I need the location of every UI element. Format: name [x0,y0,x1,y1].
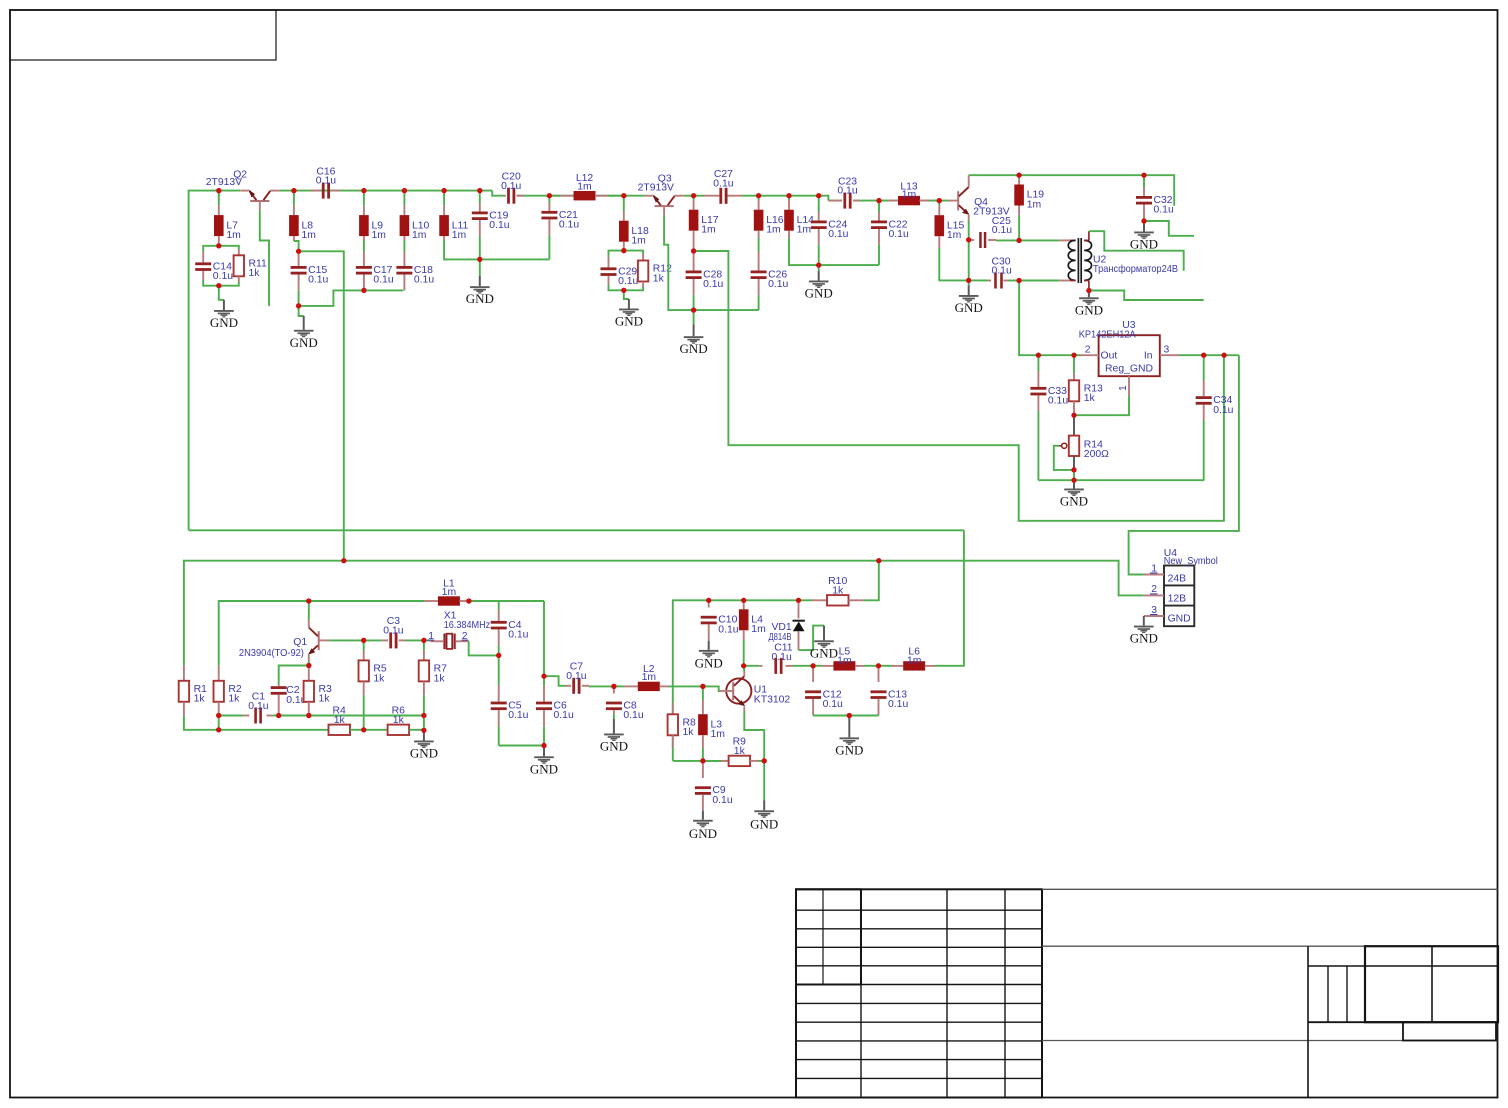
wire L11 pins [443,191,445,206]
wire Out node to C30 [1019,281,1080,356]
svg-text:0.1u: 0.1u [823,699,843,710]
transistor Q4 2T913V [948,175,1010,220]
svg-text:GND: GND [1075,302,1103,317]
inductor L10 [400,206,430,241]
pin U3 out [1080,354,1099,356]
node L3 top [700,684,705,689]
resistor R8 [668,703,696,747]
wire L17 top [693,196,695,200]
svg-text:0.1u: 0.1u [888,699,908,710]
wire Q1 collector [308,601,310,620]
inductor L13 [879,181,939,205]
node C22 top [876,198,881,203]
capacitor C15 [291,251,329,306]
capacitor C30 [969,257,1019,289]
svg-text:1m: 1m [1027,199,1041,210]
ground gnd4 [615,309,643,329]
node vert from top [341,558,346,563]
wire R14 bottom [1073,456,1075,470]
wire C28 feedback to regulator [694,251,1224,521]
node C14 bottom [216,283,221,288]
wire base line c [424,639,430,641]
resistor R2 [214,666,242,716]
svg-text:GND: GND [1060,494,1088,509]
wire L9 to C17 [363,240,365,252]
node C24 bottom [816,263,821,268]
node C19 bottom [477,257,482,262]
wire to gnd6 [818,265,820,280]
capacitor C6 [536,676,574,745]
node L19 top [1017,173,1022,178]
connector U4 box [1164,548,1218,626]
svg-text:GND: GND [835,742,863,757]
node VD1 top [796,598,801,603]
capacitor C12 [805,666,843,716]
svg-text:0.1u: 0.1u [373,275,393,286]
wire L8 to C15 [294,241,299,251]
wire Q1 base line [330,639,364,641]
junction dots overlay [216,173,1227,764]
wire C10-L4 line [709,599,744,601]
svg-text:0.1u: 0.1u [383,626,403,637]
op-amp U3 KP142EH12A box [1079,320,1170,391]
node C2 bottom [276,713,281,718]
node L9 top [361,188,366,193]
wire line B b [364,729,388,731]
capacitor C34 [1196,355,1234,480]
node C12 top [811,663,816,668]
wire rail segment A [280,190,493,192]
node L3 bottom [700,758,705,763]
wire to gnd5 [693,310,695,336]
node C15 bottom [296,303,301,308]
wire L16 top [758,196,760,200]
node L10 top [402,188,407,193]
svg-text:GND: GND [1130,631,1158,646]
wire R8 L3 R9 line [673,760,729,762]
svg-text:GND: GND [689,826,717,841]
svg-text:1m: 1m [642,672,656,683]
transistor Q1 2N3904 [239,620,330,662]
capacitor C18 [396,252,434,291]
svg-text:1k: 1k [249,268,261,279]
wire base line b [364,639,382,641]
wire U1 emitter route [744,711,764,761]
inductor L9 [359,206,386,241]
svg-text:0.1u: 0.1u [316,176,336,187]
node L1 right [466,598,471,603]
svg-text:3: 3 [1164,345,1170,356]
ground gnd12 [530,756,558,776]
svg-text:24B: 24B [1168,573,1187,584]
node L4 bottom [741,663,746,668]
node Q1 emitter [306,663,311,668]
wire L10 pins [403,191,405,206]
node C33 top [1036,353,1041,358]
svg-text:1m: 1m [766,225,780,236]
wire to U1 base [703,686,720,691]
resistor R6 [388,706,410,735]
svg-text:0.1u: 0.1u [837,186,857,197]
wire L4-R10 line [744,599,799,601]
capacitor C17 [356,252,394,291]
node C29 bottom [621,288,626,293]
svg-text:1m: 1m [797,225,811,236]
wire R13 to R14 [1073,415,1075,435]
capacitor C32 [1136,175,1174,221]
wire L14 top [788,196,790,200]
svg-text:0.1u: 0.1u [308,275,328,286]
node C17 bottom [361,288,366,293]
ground gnd6 [805,281,833,301]
capacitor C26 [751,252,789,311]
node R7 top [421,638,426,643]
svg-text:0.1u: 0.1u [1048,396,1068,407]
wire U1 collector [743,666,746,672]
node C32 bottom [1141,218,1146,223]
node C34 top [1201,353,1206,358]
inductor L16 [754,200,784,238]
wire to gnd4 [624,290,629,308]
wire rail jog at C23 [819,196,829,201]
svg-text:GND: GND [615,314,643,329]
svg-text:1m: 1m [226,230,240,241]
node R6 right [421,728,426,733]
pin U4 2 [1144,584,1164,595]
node R2 line B [216,727,221,732]
node C12 C13 gnd [847,713,852,718]
wire C4 top pin [498,610,500,621]
wire line B a [219,729,329,731]
wire L8 top [293,191,295,206]
svg-text:0.1u: 0.1u [712,795,732,806]
capacitor C7 [566,662,614,694]
capacitor C27 [704,169,743,204]
node R13 bottom [1071,413,1076,418]
svg-text:1m: 1m [452,230,466,241]
svg-text:GND: GND [695,655,723,670]
wire to gnd9 [1088,292,1090,298]
capacitor C29 [601,257,639,287]
svg-text:1m: 1m [442,587,456,598]
svg-text:0.1u: 0.1u [768,279,788,290]
capacitor C11 [744,658,813,674]
node L15 top [937,198,942,203]
node C19 top [477,188,482,193]
svg-text:1k: 1k [1084,393,1096,404]
svg-text:GND: GND [810,645,838,660]
node C32 top [1141,173,1146,178]
wire R7 link down [423,716,425,731]
wire In to U4 pin1 route [1129,355,1239,574]
node R10 branch [876,558,881,563]
capacitor C20 [501,172,524,204]
svg-text:1m: 1m [907,656,921,667]
svg-text:200Ω: 200Ω [1084,449,1109,460]
svg-text:1m: 1m [631,236,645,247]
top-left info box [10,10,276,60]
wire emitter gnd drop [763,761,765,810]
node R2 bottom [216,713,221,718]
wire to gnd7 [968,280,970,295]
inductor L18 [619,211,649,251]
wire U3 pin1 down [1074,395,1129,415]
svg-text:GND: GND [600,739,628,754]
inductor L4 [739,600,766,666]
wire C12 C13 bottom [813,715,878,717]
resistor R9 [703,737,764,766]
wire X1 pin2 route [469,641,499,655]
wire C10 line [673,600,709,761]
svg-text:Д814В: Д814В [769,632,792,643]
inductor L1 [424,578,469,605]
node R4 R5 R6 [361,727,366,732]
svg-text:1k: 1k [653,273,665,284]
transistor Q2 2T913V [206,170,280,211]
wire C14 R11 top bracket [203,246,239,252]
svg-text:GND: GND [805,286,833,301]
node C21 top [547,193,552,198]
wire to gnd12 [543,747,545,757]
svg-text:1m: 1m [902,190,916,201]
inductor L5 [813,647,878,671]
svg-text:1k: 1k [334,715,346,726]
svg-text:1m: 1m [711,729,725,740]
svg-text:GND: GND [290,335,318,350]
ground gnd14 [410,741,438,761]
node R9 right [762,758,767,763]
resistor R4 [329,706,351,735]
wire C19-C21 bottom line [480,258,550,260]
capacitor C33 [1030,355,1068,480]
resistor R1 [179,666,207,717]
node R5 top [361,638,366,643]
inductor L11 [439,206,468,241]
svg-text:1k: 1k [393,715,405,726]
resistor R5 [359,640,387,729]
svg-text:1m: 1m [837,656,851,667]
wire to gnd2 [299,306,304,330]
node C30 right [1017,278,1022,283]
node gnd line [1071,478,1076,483]
node R14 bottom [1071,467,1076,472]
wire emitter to C2 [279,666,309,685]
wire to gnd10 [1073,481,1075,489]
resistor R7 [419,640,447,715]
wire to gnd13 [613,714,615,734]
ground gnd7 [955,295,983,315]
pin U3 in [1160,354,1179,356]
svg-text:0.1u: 0.1u [1213,405,1233,416]
node C6 bottom [541,743,546,748]
wire L9 pins [363,191,365,206]
wire C15 bottom to vertical [299,290,364,306]
svg-text:0.1u: 0.1u [508,710,528,721]
node L8 top [291,188,296,193]
pin U3 gnd [1128,376,1130,395]
node L17 top [691,193,696,198]
svg-text:0.1u: 0.1u [713,178,733,189]
svg-text:2: 2 [1085,345,1091,356]
capacitor C21 [541,196,579,260]
node L11 top [442,188,447,193]
wire L14 to bottom line [789,238,819,265]
wire L1 line [309,600,424,602]
wire to gnd8 [1143,222,1145,232]
ground gnd17 [750,810,778,831]
wire rail segment D [828,200,842,202]
ground gnd10 [1060,489,1088,509]
capacitor C28 [686,251,724,310]
wire L6 right vertical [945,530,964,666]
node C4 C5 junction [496,653,501,658]
wire In node [1179,354,1239,356]
svg-text:0.1u: 0.1u [414,275,434,286]
svg-text:0.1u: 0.1u [559,220,579,231]
node C28 top [691,248,696,253]
svg-text:0.1u: 0.1u [248,701,268,712]
node L4 top [741,598,746,603]
node C6 top [541,674,546,679]
wire L1 to C6 corner [499,600,544,602]
node Q4 emitter bottom [966,278,971,283]
wire L10 to C18 [403,240,405,252]
svg-text:2T913V: 2T913V [638,183,674,194]
wire to gnd14 [423,731,425,741]
capacitor C23 [828,176,860,208]
wire L1 to C4 [469,601,499,610]
svg-text:GND: GND [680,341,708,356]
wire L15 bottom [939,248,968,280]
svg-text:GND: GND [530,761,558,776]
pin U4 1 [1144,563,1164,574]
wire C17-C18 bottom line [364,289,403,291]
svg-text:GND: GND [1168,614,1191,625]
svg-text:2N3904(TO-92): 2N3904(TO-92) [239,648,304,659]
ground gnd19 [835,737,863,757]
svg-text:1m: 1m [947,230,961,241]
inductor L17 [689,200,719,251]
svg-text:GND: GND [955,300,983,315]
ground gnd3 [466,286,494,306]
transistor Q3 2T913V [638,173,684,215]
transistor U1 KT3102 [720,672,791,712]
svg-text:12B: 12B [1168,593,1187,604]
ground gnd16 [810,640,838,660]
capacitor C5 [491,655,529,745]
svg-text:1k: 1k [734,746,746,757]
svg-text:GND: GND [750,816,778,831]
wire Q2 base [260,210,269,306]
svg-text:0.1u: 0.1u [566,671,586,682]
title block table [796,889,1498,1097]
ground gnd18 [689,820,717,841]
svg-text:0.1u: 0.1u [828,229,848,240]
wire bias line R1 [184,561,1144,666]
svg-text:1m: 1m [372,230,386,241]
svg-text:0.1u: 0.1u [618,276,638,287]
inductor L2 [614,664,703,691]
svg-text:0.1u: 0.1u [554,710,574,721]
svg-text:0.1u: 0.1u [508,630,528,641]
ground gnd8 [1130,232,1158,252]
wire to gnd3 [479,259,481,286]
svg-text:1k: 1k [194,694,206,705]
wire rail segment C1 [684,195,704,197]
capacitor C14 [195,252,233,282]
svg-text:GND: GND [1130,237,1158,252]
node C28 bottom [691,308,696,313]
node U2 secondary bottom [1086,288,1091,293]
svg-text:1m: 1m [577,182,591,193]
svg-text:Трансформатор24В: Трансформатор24В [1093,263,1178,275]
wire R1 bottom [184,716,219,730]
crystal X1 [428,610,491,649]
svg-text:1m: 1m [701,225,715,236]
wire Q3 base [664,216,694,311]
resistor R10 [799,561,879,606]
inductor L14 [784,200,814,238]
capacitor C1 [243,691,279,723]
svg-text:1k: 1k [832,585,844,596]
capacitor C22 [871,201,909,266]
capacitor C13 [871,666,909,716]
wire to gnd19 [848,717,850,738]
wire R2 bottom link [218,716,220,730]
ground gnd9 [1075,297,1103,317]
wire line A b [279,715,309,717]
svg-text:1k: 1k [228,694,240,705]
wire rail jog at C20 [492,191,504,196]
node Q1 collector top [306,598,311,603]
node R13 top [1071,353,1076,358]
node C15 top [296,249,301,254]
wire C29 R12 top bracket [609,251,644,257]
svg-text:1m: 1m [302,230,316,241]
wire U2 secondary top stub [1089,231,1184,271]
resistor R11 [234,249,267,282]
wire line A a [219,715,243,717]
wire R2/collector line [219,601,309,666]
svg-text:1k: 1k [434,673,446,684]
ground gnd11 [1130,626,1158,646]
transformer U2 [1019,231,1178,290]
svg-text:New_Symbol: New_Symbol [1164,556,1218,567]
inductor L12 [549,173,623,200]
svg-text:Out: Out [1101,351,1118,362]
wire C14 R11 bottom bracket [203,280,239,286]
wire R4 right [350,729,364,731]
svg-text:1m: 1m [751,624,765,635]
svg-text:1k: 1k [319,694,331,705]
ground gnd5 [680,336,708,356]
ground gnd2 [290,330,318,350]
wire U2 secondary bottom stub [1089,291,1204,301]
capacitor C19 [472,191,510,260]
wire C5 bottom [499,745,544,747]
diode VD1 D814B [769,600,805,663]
wire R6 right [409,729,424,731]
svg-text:1m: 1m [412,230,426,241]
capacitor C24 [811,196,849,265]
svg-text:0.1u: 0.1u [992,225,1012,236]
wire to gnd11 [1143,616,1145,626]
svg-text:GND: GND [466,291,494,306]
svg-text:0.1u: 0.1u [703,279,723,290]
svg-text:0.1u: 0.1u [992,266,1012,277]
node L16 top [756,193,761,198]
wire to gnd15 [708,641,710,650]
